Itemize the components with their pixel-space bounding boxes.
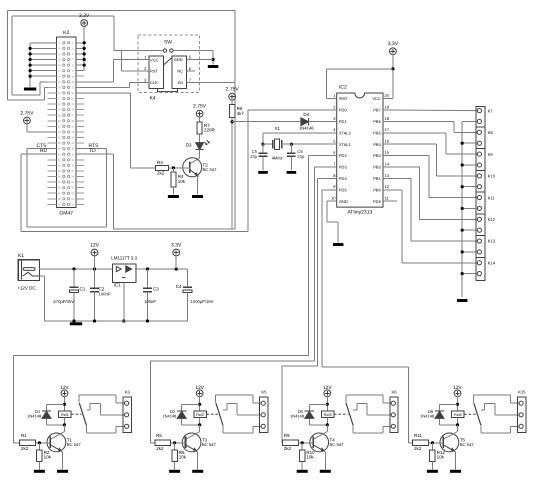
svg-text:K2: K2 [63,30,69,36]
svg-text:1N4148: 1N4148 [162,414,177,419]
svg-text:13: 13 [385,173,390,178]
svg-text:SW: SW [164,40,172,46]
svg-text:TD: TD [89,148,96,154]
supply 3.3V (main) [171,242,182,256]
svg-text:PD4: PD4 [339,176,348,181]
wire contact dashed 4 [464,413,476,415]
wire PD4 drive [317,178,331,366]
wire K1 sleeve [39,276,44,321]
svg-text:K5: K5 [261,389,267,394]
svg-text:GND: GND [339,199,348,204]
wire PD1 [232,121,301,123]
transistor T2 [183,158,217,177]
wire 3.3V drop [175,256,177,269]
wire IC1 gnd [122,283,125,323]
svg-text:RST: RST [150,68,159,73]
relay coil Rel2 [182,411,207,427]
svg-text:PD6: PD6 [373,199,382,204]
ground (SW) [208,65,219,68]
svg-text:K14: K14 [488,260,496,265]
svg-text:14: 14 [385,161,390,166]
resistor R10 [300,443,316,470]
svg-text:2k2: 2k2 [21,446,29,451]
svg-text:22p: 22p [297,154,305,159]
node CTS [37,143,48,149]
crystal X1 [263,126,291,160]
svg-text:K7: K7 [488,108,494,113]
svg-text:4MHz: 4MHz [272,156,283,161]
svg-text:PB0: PB0 [373,187,381,192]
diode D5 [290,409,314,425]
svg-text:IC1: IC1 [114,282,122,287]
wire K4 pin6 NC stub [187,70,196,72]
wire RST loop (K2 pin14 / SW) [12,16,114,95]
svg-text:R11: R11 [414,433,422,438]
svg-text:K3: K3 [125,389,131,394]
wire PB2 [389,167,478,219]
svg-text:12: 12 [385,184,390,189]
ground (K2 left) [24,88,36,91]
svg-text:R3: R3 [157,160,163,165]
wire PB0 [389,190,478,263]
svg-text:1N4148: 1N4148 [290,414,305,419]
svg-text:12V: 12V [60,385,69,391]
svg-text:3.3V: 3.3V [79,13,90,19]
ground (emitter 1) [57,470,68,473]
svg-text:K13: K13 [488,239,496,244]
diode D4 [299,112,337,130]
ground (emitter 3) [320,470,331,473]
svg-text:12V: 12V [323,385,332,391]
wire PD3 drive [315,167,332,361]
wire R4 [172,168,174,195]
capacitor C6 [287,144,305,170]
wire K2 ground bus [29,43,57,87]
ground (R6) [169,470,180,473]
svg-text:PB6: PB6 [373,119,381,124]
wire contact dashed 1 [71,413,82,415]
wire 12V drop [94,256,96,269]
connector K2 (GM47 module) [48,30,84,217]
wire drive relay1 [13,355,308,443]
wire output ground bus [461,121,478,297]
node RD [40,148,48,154]
supply 2.75V (R8) [226,87,240,101]
connector K7-K14 outputs [476,106,496,280]
svg-text:PD1: PD1 [339,119,348,124]
ground (T2) [192,195,203,198]
svg-text:PD2: PD2 [339,153,348,158]
svg-text:K10: K10 [488,174,496,179]
svg-text:+12V DC: +12V DC [17,286,36,291]
svg-text:K9: K9 [488,152,494,157]
svg-text:Rel2: Rel2 [196,413,204,417]
wire K4 pin2 RST [122,51,149,71]
wire base 4 [429,441,444,444]
svg-text:K1: K1 [18,253,24,259]
svg-text:1000µF/16V: 1000µF/16V [191,299,214,304]
svg-text:2k2: 2k2 [284,446,292,451]
wire RD net [21,154,248,231]
svg-text:NC: NC [177,68,183,73]
connector K15 [518,389,527,432]
svg-text:12V: 12V [195,385,204,391]
resistor R1 [20,433,36,451]
supply 12V (relay 3) [323,385,332,397]
ground (C6) [287,171,297,174]
transistor T5 [440,425,474,452]
svg-text:XTAL2: XTAL2 [339,130,352,135]
svg-text:1N4148: 1N4148 [299,125,314,130]
wire emitter 4 [454,451,455,470]
supply 12V (relay 2) [195,385,204,397]
svg-text:PB3: PB3 [373,153,381,158]
wire XTAL1 [290,143,331,146]
wire D3 to T2 collector [190,150,199,164]
wire IC2 VCC/RST [326,55,394,99]
wire TD net [76,154,114,229]
connector K6 [390,389,398,432]
svg-text:PB7: PB7 [373,108,381,113]
svg-text:C1: C1 [80,286,86,291]
svg-text:D3: D3 [186,143,192,148]
svg-text:PD5: PD5 [339,187,348,192]
wire R3 to base [169,166,190,169]
svg-text:PB4: PB4 [373,142,381,147]
wire XTAL2 [261,133,331,146]
svg-text:470µF/35V: 470µF/35V [53,299,74,304]
svg-text:VCC: VCC [372,96,381,101]
svg-text:K6: K6 [391,389,397,394]
transistor T4 [310,425,344,452]
svg-text:X1: X1 [274,126,280,131]
wire +12V rail [39,267,188,270]
wire IO loop (K2 pin16 / K4 IO / TD) [8,10,235,228]
resistor R7 [197,122,216,134]
wire base 1 [36,441,51,444]
resistor R8 [229,105,244,118]
wire drive relay2 [151,361,315,443]
svg-text:!RST: !RST [339,96,349,101]
wire PD5 drive [322,190,331,367]
svg-text:20: 20 [385,93,390,98]
wire drive relay4 [322,367,413,443]
svg-text:220R: 220R [204,128,216,133]
svg-text:10k: 10k [44,455,52,460]
wire K4 pin1 VCC [76,60,149,82]
wire 2.75V to R8 [231,100,233,105]
wire IC2 GND [327,201,338,242]
ground (IC2) [333,243,344,246]
svg-text:10: 10 [331,196,336,201]
svg-text:2k2: 2k2 [156,446,164,451]
svg-text:K4: K4 [149,95,155,101]
wire PB7 [389,109,478,112]
transistor T3 [182,425,216,452]
wire K2 3.3V bus [76,26,86,70]
svg-text:PD0: PD0 [339,108,348,113]
resistor R3 [156,160,169,176]
resistor R11 [413,433,429,451]
wire SW left [114,50,163,52]
svg-text:19: 19 [385,104,390,109]
svg-text:1N4148: 1N4148 [420,414,435,419]
svg-text:LM1117T 3.3: LM1117T 3.3 [111,256,137,261]
resistor R2 [37,443,52,470]
svg-text:RD: RD [40,148,48,154]
svg-text:2.75V: 2.75V [226,87,240,93]
svg-text:100nF: 100nF [99,291,111,296]
wire K4 pin5 GND [187,59,214,61]
connector K3 [123,389,131,432]
svg-text:BC 547: BC 547 [203,167,218,172]
supply 3.3V (K2) [79,13,90,27]
wire contact dashed 2 [206,413,218,415]
wire ground rail [44,319,187,322]
svg-text:C4: C4 [176,284,182,289]
svg-text:XTAL1: XTAL1 [339,142,352,147]
wire emitter 1 [61,451,62,470]
resistor R6 [172,443,187,470]
wire PB6 [389,121,478,132]
relay coil Rel4 [440,411,465,427]
ground (emitter 2) [192,470,203,473]
svg-text:PB5: PB5 [373,130,381,135]
wire PB1 [389,178,478,241]
connector K5 [260,389,268,432]
resistor R9 [282,433,298,451]
LED D3 [186,140,210,150]
svg-text:10k: 10k [437,455,445,460]
svg-text:IC2: IC2 [339,84,347,90]
wire PD0 riser [247,110,249,232]
wire PB3 [389,156,478,198]
svg-text:2.75V: 2.75V [193,104,207,110]
svg-text:100nF: 100nF [144,299,156,304]
wire R7 to D3 [199,134,201,143]
wire SW right [173,51,215,65]
wire base 2 [171,441,186,444]
wire coil top 2 [182,397,202,411]
svg-text:10k: 10k [179,455,187,460]
svg-text:K8: K8 [488,130,494,135]
wire coil top 4 [440,397,460,411]
svg-text:17: 17 [385,127,390,132]
regulator IC1 [111,256,137,288]
diode D2 [162,409,186,425]
switch SW [163,40,173,53]
node RTS [89,143,100,149]
capacitor C1 [53,269,85,321]
ground (R10) [297,470,308,473]
wire coil top 1 [47,397,67,411]
svg-text:BC 547: BC 547 [67,442,82,447]
wire PD2 drive [309,156,332,356]
svg-text:ATtiny2313: ATtiny2313 [347,210,372,216]
ground (outputs) [457,299,468,302]
svg-text:2k2: 2k2 [414,446,422,451]
IC U1 IC2 ATtiny2313 [331,84,390,215]
wire emitter 3 [324,451,325,470]
svg-text:Rel1: Rel1 [61,413,69,417]
svg-text:2.75V: 2.75V [20,110,34,116]
wire CTS-RTS loop [27,149,107,227]
wire T2 emitter [197,175,199,194]
supply 12V (relay 4) [453,385,462,397]
svg-text:10k: 10k [178,179,186,184]
svg-text:Rel4: Rel4 [454,413,462,417]
supply 3.3V (IC2) [388,41,399,55]
relay coil Rel3 [309,411,334,427]
ground (C5) [258,171,268,174]
ground (R4) [168,195,179,198]
svg-text:18: 18 [385,116,390,121]
svg-text:1N4148: 1N4148 [27,414,42,419]
svg-text:12V: 12V [90,242,100,248]
relay contact 1 [79,395,124,433]
wire R3 feed [76,93,156,168]
relay contact 3 [346,395,391,433]
wire 2.75V to K2 [27,124,57,132]
relay contact 2 [216,395,261,433]
connector K4 (programming) [138,35,200,102]
svg-text:BC 547: BC 547 [330,442,345,447]
relay coil Rel1 [47,411,72,427]
svg-text:4k7: 4k7 [237,111,245,116]
node TD [89,148,96,154]
wire K4 pin7 IO [187,81,235,83]
resistor R4 [171,172,186,187]
svg-text:PD3: PD3 [339,165,348,170]
supply 2.75V (LED) [193,104,207,118]
ground (R2) [34,470,45,473]
diode D6 [420,409,444,425]
wire PD0 [248,109,331,111]
svg-text:2k2: 2k2 [157,170,165,175]
supply 2.75V (K2 side) [20,110,34,124]
capacitor C5 [250,144,267,170]
wire R8 node [231,118,301,229]
svg-text:BC 547: BC 547 [460,442,475,447]
svg-text:15: 15 [385,150,390,155]
connector K1 (+12V DC) [17,253,39,291]
wire base 3 [298,441,313,444]
wire PB4 [389,144,478,176]
svg-text:VCC: VCC [150,57,159,62]
svg-text:CLK: CLK [150,80,158,85]
wire coil top 3 [309,397,329,411]
svg-text:I/O: I/O [178,80,183,85]
svg-text:K15: K15 [518,389,526,394]
capacitor C4 [176,269,214,321]
supply 12V (relay 1) [60,385,69,397]
svg-text:C3: C3 [153,286,159,291]
wire drive relay3 [282,366,317,443]
transistor T1 [47,425,81,452]
svg-text:K11: K11 [488,195,496,200]
relay contact 4 [474,395,519,433]
ground (emitter 4) [450,470,461,473]
diode D1 [27,409,51,425]
svg-text:3.3V: 3.3V [388,41,399,47]
svg-text:PB2: PB2 [373,165,381,170]
svg-text:3.3V: 3.3V [171,242,182,248]
svg-text:12V: 12V [453,385,462,391]
capacitor C2 [90,269,111,321]
wire contact dashed 3 [334,413,348,415]
ground (R12) [427,470,438,473]
resistor R5 [155,433,171,451]
wire PB5 [389,133,478,154]
svg-text:K12: K12 [488,217,496,222]
wire emitter 2 [196,451,197,470]
svg-text:BC 547: BC 547 [202,442,217,447]
svg-text:GND: GND [174,57,183,62]
supply 12V (main) [90,242,100,256]
svg-text:D4: D4 [303,112,309,117]
svg-text:R1: R1 [21,433,27,438]
svg-text:R9: R9 [284,433,290,438]
wire K4 pin3 CLK [76,82,149,87]
wire 2.75V to R7 [199,117,201,122]
wire PD6 stub [389,200,398,202]
svg-text:10k: 10k [306,455,314,460]
ground (supply) [70,322,82,325]
resistor R12 [430,443,446,470]
svg-text:GM47: GM47 [59,211,73,217]
svg-text:PB1: PB1 [373,176,381,181]
svg-text:Rel3: Rel3 [324,413,332,417]
svg-text:22p: 22p [250,154,258,159]
svg-text:16: 16 [385,139,390,144]
svg-text:R5: R5 [156,433,162,438]
capacitor C3 [143,269,159,321]
